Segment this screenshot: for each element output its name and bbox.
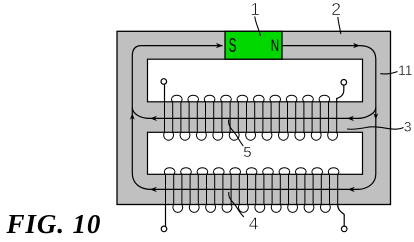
arrow flux middle left (points left) — [150, 116, 157, 121]
wire lower coil left lead — [165, 205, 167, 227]
wire flux top-right segment — [283, 45, 361, 47]
window upper (top opening in core) — [148, 59, 363, 102]
svg-text:S: S — [229, 35, 237, 57]
wire flux left vertical — [131, 56, 133, 173]
core 11 (outer gray yoke) — [117, 31, 391, 204]
terminal upper-left — [161, 79, 167, 85]
terminal lower-left — [161, 226, 167, 232]
svg-text:FIG. 10: FIG. 10 — [6, 209, 102, 239]
wire lower coil right lead — [338, 205, 345, 227]
arrow flux bottom right (points left) — [348, 187, 355, 192]
leader 5 — [229, 120, 244, 147]
wire flux middle-left junction curve — [132, 108, 150, 119]
wire flux bottom segment — [151, 188, 357, 190]
wire flux top-left corner curve — [132, 46, 141, 56]
winding 4 (lower coil around bottom limb) — [164, 168, 339, 213]
svg-text:11: 11 — [398, 62, 413, 78]
terminal lower-right — [341, 226, 347, 232]
arrow flux left vertical (points up) — [130, 113, 135, 120]
winding 5 (upper coil around center limb) — [164, 95, 338, 140]
wire flux middle-right junction curve — [358, 108, 376, 119]
wire flux middle segment — [150, 117, 358, 119]
terminal upper-right — [341, 80, 347, 86]
leader 4 — [229, 192, 244, 217]
arrow flux into magnet S (points right) — [216, 43, 223, 48]
arrow flux middle right (points left) — [347, 116, 354, 121]
wire flux bottom-right corner curve — [357, 174, 376, 189]
wire flux bottom-left corner curve — [132, 173, 151, 189]
svg-text:1: 1 — [250, 0, 260, 19]
wire flux top-left segment — [141, 45, 222, 47]
wire upper coil left lead — [164, 84, 166, 102]
wire upper coil right lead — [337, 85, 344, 102]
svg-text:3: 3 — [404, 119, 412, 135]
wire flux top-right corner curve — [360, 46, 376, 59]
leader 3 — [347, 127, 404, 129]
arrow flux bottom left (points left) — [150, 187, 157, 192]
arrow flux right vertical (points down) — [373, 113, 378, 120]
window lower (bottom opening in core) — [148, 132, 363, 174]
leader 1 — [255, 17, 261, 37]
arrow flux top right (points right) — [353, 43, 360, 48]
svg-text:N: N — [271, 37, 279, 55]
svg-text:4: 4 — [249, 214, 259, 234]
leader 2 — [338, 17, 341, 34]
magnet 1 (permanent magnet S-N) — [225, 31, 282, 59]
svg-text:2: 2 — [331, 0, 341, 19]
svg-text:5: 5 — [243, 144, 251, 161]
wire flux right vertical — [375, 59, 377, 174]
leader 11 — [380, 72, 397, 75]
